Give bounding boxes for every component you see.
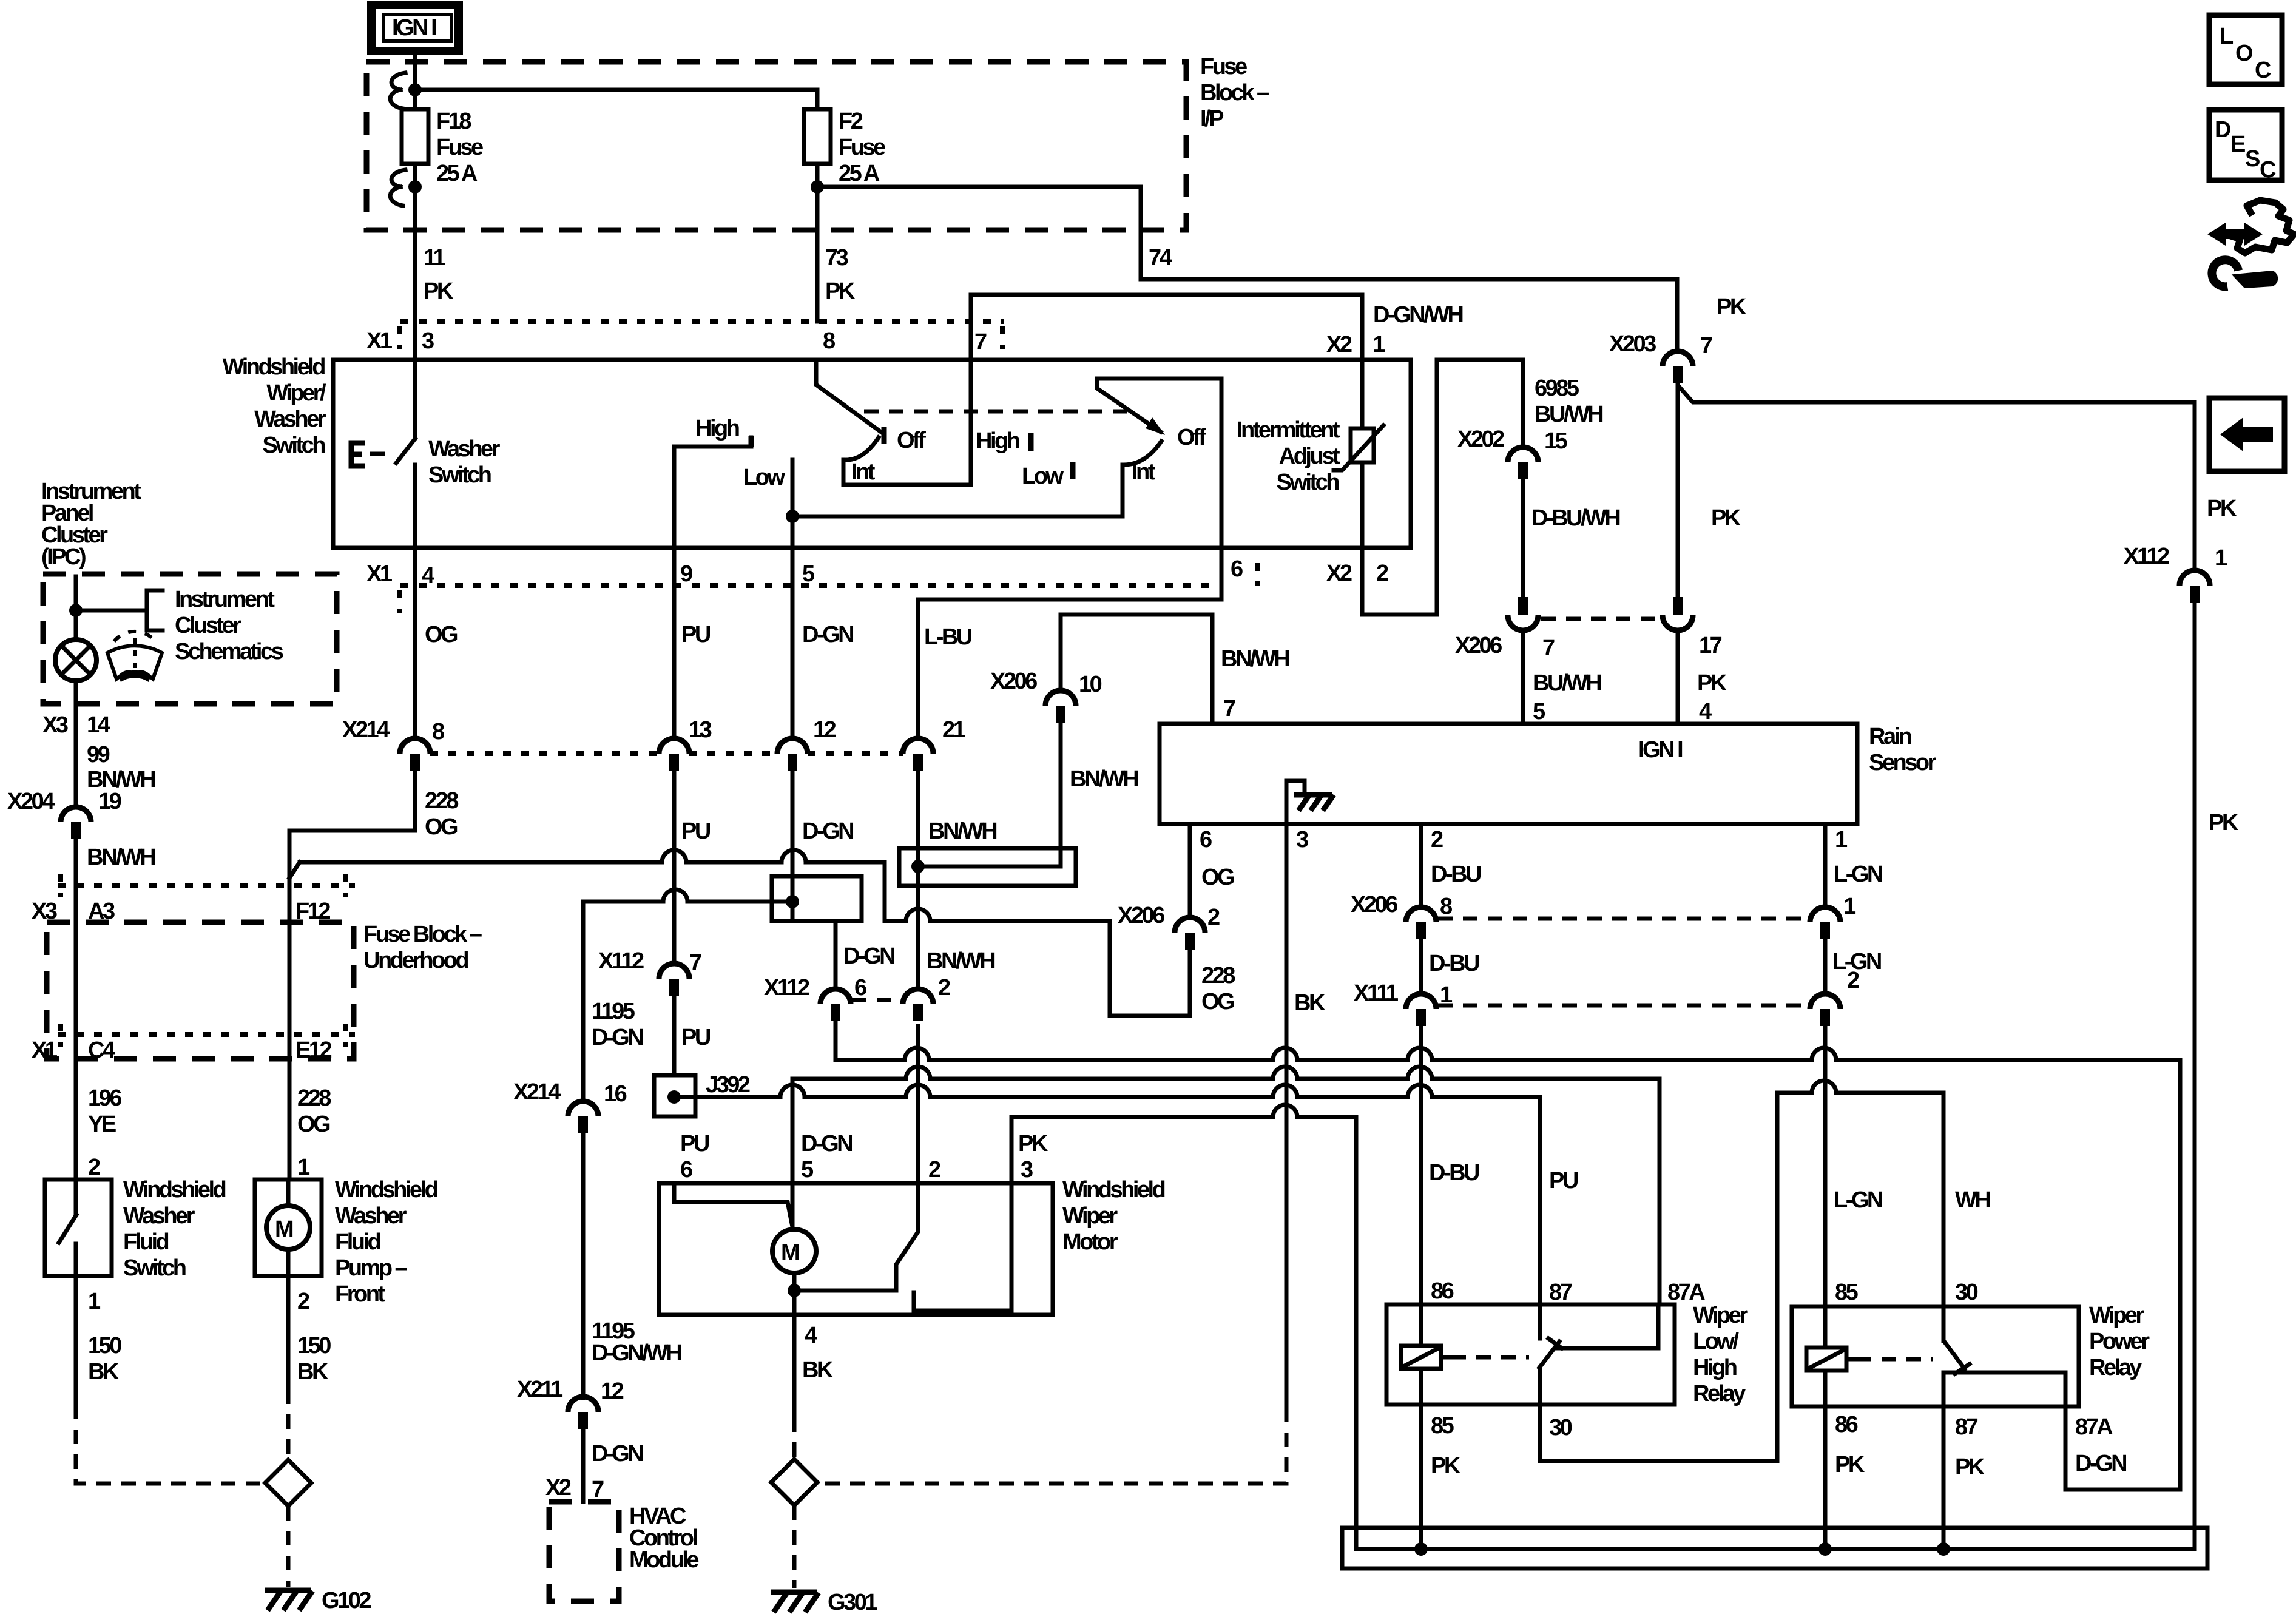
splice diamond G102 bbox=[265, 1460, 311, 1506]
label 99 BN/WH bbox=[87, 742, 155, 792]
svg-text:IGN I: IGN I bbox=[392, 15, 436, 41]
connector row X3 A3 dotted bbox=[58, 883, 355, 888]
svg-text:Windshield: Windshield bbox=[123, 1177, 226, 1203]
svg-text:C4: C4 bbox=[88, 1038, 115, 1063]
svg-text:D-GN: D-GN bbox=[802, 819, 853, 844]
washer switch actuator dashes bbox=[370, 452, 394, 456]
splice diamond G301 bbox=[771, 1459, 817, 1505]
wire PU X1-9 to X214-13 bbox=[672, 548, 677, 739]
label PK PK D-GN power bbox=[1835, 1451, 2126, 1480]
wire 150 BK pump down bbox=[286, 1276, 291, 1389]
svg-text:PU: PU bbox=[680, 1131, 709, 1156]
svg-text:Low/: Low/ bbox=[1693, 1329, 1739, 1354]
svg-text:BU/WH: BU/WH bbox=[1535, 402, 1602, 427]
svg-text:Fuse: Fuse bbox=[839, 135, 885, 160]
wire X112-7 to J392 bbox=[672, 996, 677, 1075]
dashed X112 6-2 bbox=[852, 998, 902, 1002]
rain sensor box bbox=[1160, 724, 1857, 824]
wiper power relay box bbox=[1792, 1306, 2079, 1406]
svg-text:X112: X112 bbox=[764, 975, 809, 1001]
svg-text:BN/WH: BN/WH bbox=[1221, 646, 1289, 672]
svg-text:Fuse Block –: Fuse Block – bbox=[363, 922, 482, 947]
svg-text:BN/WH: BN/WH bbox=[87, 767, 155, 792]
svg-text:Washer: Washer bbox=[335, 1203, 407, 1229]
svg-text:X206: X206 bbox=[990, 669, 1037, 694]
svg-text:87: 87 bbox=[1955, 1414, 1978, 1440]
wiper motor M symbol bbox=[772, 1229, 816, 1273]
svg-text:Washer: Washer bbox=[428, 436, 501, 462]
back arrow box bbox=[2209, 398, 2284, 471]
label X3 14 bbox=[42, 712, 110, 738]
svg-text:X112: X112 bbox=[598, 948, 644, 974]
connector X202 pin 15 bbox=[1508, 447, 1538, 479]
splice box BN/WH bbox=[899, 848, 1076, 886]
svg-text:6: 6 bbox=[1200, 827, 1212, 852]
svg-text:Fluid: Fluid bbox=[335, 1229, 380, 1255]
svg-text:OG: OG bbox=[425, 622, 458, 647]
label X206 7 17 bbox=[1455, 633, 1722, 661]
wire BN/WH rain pin7 riser bbox=[1061, 615, 1212, 724]
connector X214 pin 13 bbox=[659, 738, 689, 771]
svg-text:2: 2 bbox=[297, 1289, 309, 1314]
wire D-BU to X111-1 bbox=[1419, 939, 1423, 994]
svg-text:BK: BK bbox=[1294, 990, 1326, 1016]
svg-text:PK: PK bbox=[1711, 505, 1741, 531]
wire relay 87 PK to bus bbox=[1942, 1406, 1946, 1549]
label X204 19 bbox=[7, 789, 121, 814]
svg-text:6985: 6985 bbox=[1535, 376, 1579, 401]
svg-text:86: 86 bbox=[1835, 1412, 1858, 1437]
label 196 YE 2 bbox=[88, 1085, 121, 1180]
svg-text:Wiper: Wiper bbox=[2089, 1303, 2144, 1328]
label Fuse Block I/P bbox=[1200, 54, 1269, 132]
label Intermittent Adjust Switch bbox=[1237, 417, 1340, 495]
node 85 bus bbox=[1414, 1542, 1428, 1556]
wire 228 OG X214-8 down and left bbox=[289, 771, 415, 1180]
connector X206 pin 8 bbox=[1406, 907, 1436, 939]
svg-text:16: 16 bbox=[604, 1081, 627, 1107]
svg-text:OG: OG bbox=[1201, 865, 1234, 890]
svg-text:Module: Module bbox=[629, 1547, 698, 1573]
svg-text:E: E bbox=[2230, 132, 2245, 157]
svg-text:99: 99 bbox=[87, 742, 110, 768]
label X3 A3 F12 bbox=[32, 899, 330, 924]
node Low junction bbox=[786, 510, 799, 523]
fuse block I/P dashed box bbox=[366, 62, 1186, 230]
svg-text:OG: OG bbox=[1201, 989, 1234, 1014]
svg-text:PK: PK bbox=[825, 279, 856, 304]
svg-text:3: 3 bbox=[422, 328, 434, 354]
svg-text:Switch: Switch bbox=[428, 462, 491, 488]
svg-text:Underhood: Underhood bbox=[363, 948, 468, 973]
svg-text:High: High bbox=[1693, 1355, 1737, 1380]
wire OG X1-4 to X214-8 bbox=[413, 548, 417, 739]
svg-text:X2: X2 bbox=[1326, 332, 1352, 357]
svg-text:Instrument: Instrument bbox=[175, 587, 275, 612]
connector X203 pin 7 bbox=[1663, 351, 1693, 383]
LOC reference box bbox=[2209, 15, 2282, 84]
svg-text:Cluster: Cluster bbox=[175, 613, 241, 638]
svg-text:G301: G301 bbox=[828, 1590, 877, 1615]
svg-text:Block –: Block – bbox=[1200, 80, 1269, 106]
bank2 High contact tick bbox=[1028, 433, 1034, 451]
svg-text:IGN I: IGN I bbox=[1638, 737, 1683, 763]
label X206 2 bbox=[1118, 903, 1220, 930]
svg-text:Off: Off bbox=[1177, 425, 1206, 450]
ground symbol inside rain sensor bbox=[1286, 781, 1334, 824]
svg-text:87: 87 bbox=[1549, 1280, 1572, 1305]
svg-text:OG: OG bbox=[425, 814, 458, 840]
svg-text:X202: X202 bbox=[1457, 427, 1504, 452]
bank2 Low contact tick bbox=[1070, 462, 1076, 479]
svg-text:15: 15 bbox=[1544, 428, 1568, 454]
svg-text:6: 6 bbox=[1231, 556, 1243, 582]
svg-text:2: 2 bbox=[1847, 968, 1859, 993]
wire rain pin 1 L-GN bbox=[1823, 824, 1828, 907]
wiper motor box bbox=[659, 1183, 1053, 1315]
dashed X111 1-2 bbox=[1438, 1004, 1809, 1008]
label X1 3 bbox=[366, 328, 434, 354]
svg-text:3: 3 bbox=[1296, 827, 1308, 852]
power symbol IGN I bbox=[371, 5, 459, 51]
svg-text:X204: X204 bbox=[7, 789, 55, 814]
svg-text:Off: Off bbox=[897, 428, 926, 453]
label X112 1 right bbox=[2124, 544, 2227, 571]
svg-text:150: 150 bbox=[297, 1333, 331, 1359]
wire PK 4 into rain sensor bbox=[1676, 631, 1680, 724]
svg-text:87A: 87A bbox=[2075, 1414, 2113, 1440]
svg-text:Pump –: Pump – bbox=[335, 1255, 407, 1281]
svg-text:D-GN: D-GN bbox=[801, 1131, 852, 1156]
svg-text:85: 85 bbox=[1431, 1413, 1454, 1439]
label Washer Switch bbox=[428, 436, 501, 488]
svg-text:E12: E12 bbox=[295, 1038, 331, 1063]
svg-text:X211: X211 bbox=[517, 1377, 563, 1402]
label Wiper Power Relay bbox=[2089, 1303, 2150, 1380]
svg-text:X206: X206 bbox=[1118, 903, 1164, 928]
label PK 4 bbox=[1697, 670, 1727, 724]
svg-text:X1: X1 bbox=[32, 1038, 58, 1063]
svg-text:Fuse: Fuse bbox=[1200, 54, 1247, 79]
svg-text:(IPC): (IPC) bbox=[41, 544, 86, 570]
svg-text:2: 2 bbox=[938, 975, 950, 1001]
svg-text:High: High bbox=[976, 428, 1019, 454]
svg-text:D-GN/WH: D-GN/WH bbox=[1373, 302, 1463, 328]
connector X214 pin 8 bbox=[400, 738, 430, 771]
svg-text:D-BU: D-BU bbox=[1429, 951, 1479, 976]
dashed diamond to ground G301 bbox=[792, 1505, 797, 1588]
node junction F2 bottom bbox=[811, 180, 824, 194]
relay coil low high bbox=[1401, 1305, 1441, 1405]
fuse block underhood dashed box bbox=[47, 922, 354, 1059]
svg-text:30: 30 bbox=[1955, 1280, 1978, 1305]
svg-text:Rain: Rain bbox=[1869, 724, 1911, 749]
svg-text:M: M bbox=[275, 1217, 293, 1242]
wire BN/WH X214-21 through splice bbox=[916, 771, 920, 990]
wire PU X214-13 to X112-7 bbox=[672, 771, 677, 964]
relay switch power bbox=[1943, 1306, 2065, 1406]
svg-text:21: 21 bbox=[942, 717, 966, 743]
svg-text:D-GN: D-GN bbox=[592, 1441, 643, 1467]
svg-text:85: 85 bbox=[1835, 1280, 1859, 1305]
label 6985 BU/WH bbox=[1535, 376, 1602, 427]
svg-text:12: 12 bbox=[601, 1379, 624, 1404]
svg-text:Fluid: Fluid bbox=[123, 1229, 169, 1255]
svg-text:Windshield: Windshield bbox=[1062, 1177, 1165, 1203]
svg-text:12: 12 bbox=[813, 717, 836, 743]
label HVAC Control Module bbox=[629, 1504, 698, 1573]
svg-text:PU: PU bbox=[681, 819, 711, 844]
dashed BK to G301 bbox=[818, 1408, 1286, 1484]
connector X111 pin 1 bbox=[1406, 994, 1436, 1026]
connector X112 pin 2 bbox=[903, 989, 933, 1021]
svg-text:228: 228 bbox=[1201, 963, 1235, 988]
bus wire 4 PK motor to ground bus bbox=[1011, 1105, 2195, 1549]
svg-text:7: 7 bbox=[1700, 333, 1712, 359]
label BN/WH pin7 bbox=[1221, 646, 1289, 721]
svg-text:Motor: Motor bbox=[1062, 1229, 1118, 1255]
connector X111 pin 2 bbox=[1810, 994, 1840, 1026]
lamp indicator symbol bbox=[55, 640, 96, 681]
label Instrument Panel Cluster IPC bbox=[41, 479, 141, 570]
svg-text:D-GN/WH: D-GN/WH bbox=[592, 1340, 681, 1366]
wire washer switch lower bbox=[413, 465, 417, 548]
HVAC control module dashed box bbox=[549, 1502, 619, 1601]
wire PK X203 to X112-1 bbox=[1680, 387, 2195, 569]
label X1 4 bbox=[366, 561, 434, 589]
label X1 C4 E12 bbox=[32, 1038, 331, 1063]
label 86 87 87A bbox=[1431, 1278, 1705, 1305]
wire HVAC branch 1195 D-GN bbox=[583, 890, 792, 1100]
label X206 10 bbox=[990, 669, 1102, 697]
label X112 6 bbox=[764, 975, 866, 1001]
bank1 rotary arc bbox=[847, 437, 879, 460]
svg-text:X206: X206 bbox=[1455, 633, 1502, 658]
label X214 8 bbox=[342, 717, 444, 744]
label Windshield Wiper Washer Switch bbox=[223, 354, 326, 458]
wire F18 fuse down through block bbox=[413, 164, 417, 322]
svg-text:3: 3 bbox=[1021, 1157, 1033, 1183]
svg-text:6: 6 bbox=[854, 975, 866, 1001]
wire BU/WH 5 into rain sensor bbox=[1521, 631, 1525, 724]
bank1 Int contact and wire to X2-1 bbox=[843, 295, 1362, 485]
svg-text:D-GN: D-GN bbox=[2075, 1451, 2126, 1476]
wire X206-10 to splice bbox=[1059, 723, 1063, 866]
svg-text:Windshield: Windshield bbox=[335, 1177, 437, 1203]
label pin 6 OG bbox=[1200, 827, 1234, 890]
wire to schematic bracket bbox=[76, 609, 147, 613]
wire PK X112-1 down right side bbox=[2193, 603, 2197, 1549]
wire rain pin 3 BK bbox=[1285, 824, 1289, 1408]
node IPC junction bbox=[69, 604, 83, 617]
svg-text:X2: X2 bbox=[1326, 561, 1352, 586]
svg-text:Front: Front bbox=[335, 1281, 385, 1307]
label X2 2 bbox=[1326, 561, 1388, 586]
svg-text:Fuse: Fuse bbox=[436, 135, 483, 160]
label Wiper Low High Relay bbox=[1693, 1303, 1748, 1406]
label 85 30 bbox=[1431, 1413, 1572, 1440]
svg-text:D-GN: D-GN bbox=[843, 944, 894, 969]
label X112 7 bbox=[598, 948, 701, 976]
svg-text:Power: Power bbox=[2089, 1329, 2150, 1354]
wire X214-16 to X211-12 bbox=[581, 1133, 586, 1398]
wire D-BU/WH X202 to X206-7 bbox=[1521, 479, 1525, 596]
svg-text:11: 11 bbox=[424, 245, 446, 271]
svg-text:I/P: I/P bbox=[1200, 106, 1224, 132]
ground bus outer rectangle bbox=[1342, 1528, 2207, 1568]
label X111 1 bbox=[1354, 981, 1453, 1008]
label Rain Sensor bbox=[1869, 724, 1937, 775]
connector X214 pin 12 bbox=[777, 738, 808, 771]
svg-text:BU/WH: BU/WH bbox=[1533, 670, 1601, 696]
node splice D-GN bbox=[786, 895, 799, 908]
label 11 PK bbox=[424, 245, 454, 304]
bank1 High contact bbox=[674, 437, 751, 548]
tick X1 top left bbox=[397, 326, 402, 349]
label D-GN 5 motor bbox=[801, 1131, 852, 1183]
label PU 6 motor bbox=[680, 1131, 709, 1183]
svg-text:PK: PK bbox=[424, 279, 454, 304]
svg-text:X112: X112 bbox=[2124, 544, 2169, 569]
svg-text:2: 2 bbox=[88, 1155, 100, 1180]
svg-text:17: 17 bbox=[1699, 633, 1722, 658]
pump motor symbol bbox=[266, 1180, 310, 1276]
svg-text:BN/WH: BN/WH bbox=[1070, 766, 1138, 792]
connector row X1 bottom dotted bbox=[400, 583, 1223, 588]
label X2 1 bbox=[1326, 332, 1385, 357]
relay switch low high bbox=[1539, 1305, 1658, 1405]
svg-text:Switch: Switch bbox=[263, 433, 325, 458]
svg-text:13: 13 bbox=[689, 717, 712, 743]
label 1195 D-GN/WH bbox=[592, 1318, 681, 1366]
tick A3 left bbox=[58, 874, 63, 897]
dashed X206 7-17 bbox=[1541, 617, 1660, 621]
svg-text:196: 196 bbox=[88, 1085, 121, 1111]
svg-text:Switch: Switch bbox=[123, 1255, 186, 1281]
dashed X206 8-1 bbox=[1438, 917, 1809, 921]
connector X206 pin 17 cup bbox=[1663, 597, 1693, 630]
svg-text:PK: PK bbox=[1697, 670, 1727, 696]
label 4 BK bbox=[802, 1323, 834, 1383]
relay coil dashes low high bbox=[1441, 1355, 1451, 1360]
bus wire 3 PU J392 to relay 87 bbox=[674, 1085, 1540, 1305]
node splice BN/WH bbox=[911, 860, 925, 873]
svg-text:Wiper: Wiper bbox=[1693, 1303, 1748, 1328]
wire relay 30 to power relay 30 bbox=[1540, 1081, 1943, 1461]
svg-text:7: 7 bbox=[689, 950, 701, 976]
svg-text:BN/WH: BN/WH bbox=[927, 948, 994, 974]
wire motor pin 4 BK bbox=[792, 1291, 797, 1417]
windshield washer fluid switch box bbox=[45, 1180, 112, 1276]
svg-text:8: 8 bbox=[432, 719, 444, 744]
svg-text:2: 2 bbox=[928, 1157, 940, 1183]
svg-text:Relay: Relay bbox=[2089, 1355, 2142, 1380]
svg-text:BN/WH: BN/WH bbox=[87, 845, 155, 870]
splice box D-GN bbox=[772, 876, 862, 921]
svg-text:X214: X214 bbox=[513, 1079, 561, 1105]
connector X206 pin 1 bbox=[1810, 907, 1840, 939]
fuse clip top F18 bbox=[390, 73, 405, 109]
connector row X1 C4 dotted bbox=[58, 1032, 355, 1037]
svg-text:BK: BK bbox=[297, 1359, 329, 1385]
bus wire 2 D-GN motor to relay 87A bbox=[792, 1067, 1660, 1305]
relay coil dashes power bbox=[1846, 1357, 1857, 1362]
wiper motor park common bbox=[794, 1273, 896, 1291]
svg-text:M: M bbox=[781, 1240, 799, 1266]
bank1 Low contact bbox=[791, 460, 795, 548]
wire D-GN splice jog to X112-6 bbox=[834, 921, 838, 990]
fuse F2 bbox=[804, 109, 831, 164]
label 1195 D-GN upper bbox=[592, 999, 643, 1050]
label BU/WH 5 bbox=[1533, 670, 1601, 724]
svg-text:L: L bbox=[2220, 24, 2234, 49]
svg-text:Low: Low bbox=[743, 465, 785, 490]
dashed diamond to ground G102 bbox=[286, 1506, 291, 1587]
svg-text:PK: PK bbox=[2207, 496, 2237, 521]
wire 74 PK from F2 to X203 bbox=[817, 187, 1677, 351]
svg-text:7: 7 bbox=[1223, 696, 1235, 721]
label 228 OG bbox=[425, 788, 458, 840]
svg-text:Wiper: Wiper bbox=[1062, 1203, 1118, 1229]
rheostat intermittent adjust bbox=[1334, 360, 1383, 615]
label Windshield Wiper Motor bbox=[1062, 1177, 1165, 1255]
washer switch blade bbox=[396, 439, 415, 463]
label X211 12 bbox=[517, 1377, 624, 1404]
svg-text:Relay: Relay bbox=[1693, 1381, 1746, 1406]
svg-text:X1: X1 bbox=[366, 328, 393, 354]
svg-text:6: 6 bbox=[680, 1157, 692, 1183]
wire 6985 BU/WH X2-2 to X202 bbox=[1362, 360, 1523, 615]
svg-text:X111: X111 bbox=[1354, 981, 1399, 1006]
wire rain pin 2 D-BU bbox=[1419, 824, 1423, 907]
svg-text:BN/WH: BN/WH bbox=[928, 819, 996, 844]
svg-text:2: 2 bbox=[1207, 905, 1220, 930]
bank2 rotary arc bbox=[1124, 441, 1161, 465]
svg-text:Intermittent: Intermittent bbox=[1237, 417, 1340, 443]
svg-text:Adjust: Adjust bbox=[1279, 444, 1340, 469]
connector X206 pin 10 bbox=[1045, 690, 1076, 723]
svg-text:19: 19 bbox=[98, 789, 121, 814]
node 87 bus bbox=[1937, 1542, 1950, 1556]
connector X204 pin 19 bbox=[61, 807, 91, 839]
svg-text:L-GN: L-GN bbox=[1834, 862, 1882, 887]
label 86 87 87A power bbox=[1835, 1412, 2113, 1440]
svg-text:D-BU: D-BU bbox=[1431, 862, 1481, 887]
tick C4 left bbox=[58, 1024, 63, 1047]
wire rain pin 6 OG bbox=[1188, 824, 1192, 917]
node junction F18 bottom bbox=[408, 180, 422, 194]
wire D-GN X214-12 to splice bbox=[791, 771, 795, 921]
wire BN/WH X204 down bbox=[74, 839, 78, 1180]
svg-text:X203: X203 bbox=[1609, 331, 1656, 357]
svg-text:D-BU: D-BU bbox=[1429, 1160, 1479, 1186]
node 86 bus bbox=[1818, 1542, 1832, 1556]
label F18 Fuse 25 A bbox=[436, 109, 483, 186]
svg-text:Sensor: Sensor bbox=[1869, 750, 1937, 775]
svg-text:X2: X2 bbox=[545, 1475, 571, 1501]
wiper motor D-GN internal bbox=[791, 1183, 795, 1230]
wire IGN I to fuse block bbox=[413, 51, 417, 109]
ground G301 bbox=[771, 1592, 819, 1612]
label pin 1 L-GN bbox=[1834, 827, 1882, 887]
svg-text:PU: PU bbox=[681, 622, 711, 647]
svg-text:2: 2 bbox=[1431, 827, 1443, 852]
bank1 Off contact tick bbox=[882, 427, 887, 444]
node motor common bbox=[788, 1284, 801, 1297]
tick X1 top right bbox=[1000, 326, 1005, 349]
svg-text:10: 10 bbox=[1079, 672, 1102, 697]
label 85 30 power bbox=[1835, 1280, 1978, 1305]
